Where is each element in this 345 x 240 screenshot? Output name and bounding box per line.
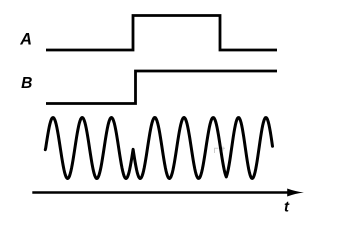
svg-text:B: B <box>21 75 32 92</box>
BPSK carrier wave <box>45 118 272 179</box>
time axis line <box>32 191 290 194</box>
signal A waveform <box>46 16 277 51</box>
axis arrowhead <box>287 189 304 197</box>
signal B waveform <box>46 71 277 104</box>
svg-text:A: A <box>19 31 32 49</box>
faint artifact mark <box>215 147 226 154</box>
